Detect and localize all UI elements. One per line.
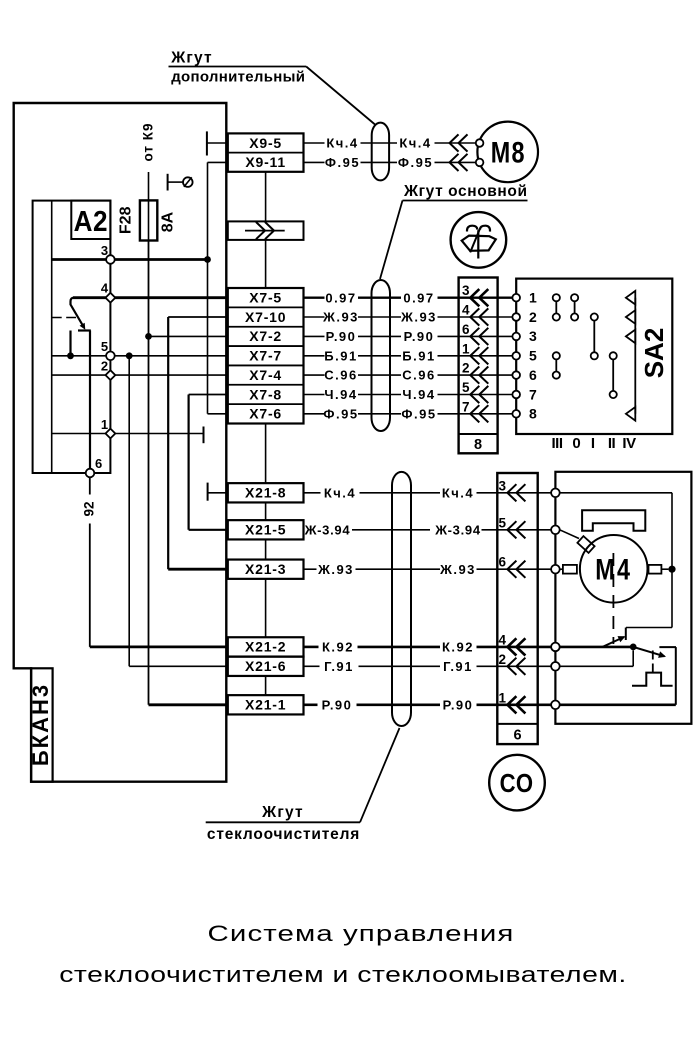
svg-text:8: 8: [529, 406, 537, 422]
svg-text:6: 6: [462, 322, 470, 337]
connector pins chevrons M8 row1: [450, 134, 459, 151]
svg-text:7: 7: [462, 399, 470, 414]
M4 terminal circle row 1: [551, 701, 560, 710]
M4 terminal circle row 5: [551, 526, 560, 535]
SA2 contact column C bridge 2-5: [591, 313, 598, 320]
M4 net terminal3 wire: [560, 492, 672, 494]
motor shaft dashed axis: [612, 553, 614, 644]
wire X9-5 terminal: [206, 131, 208, 155]
M8 terminal top: [476, 139, 484, 147]
svg-text:X9-11: X9-11: [245, 154, 286, 170]
svg-text:Р.90: Р.90: [443, 697, 474, 712]
svg-text:3: 3: [101, 243, 108, 258]
A2 pin 2: [106, 370, 116, 380]
connector strip 6-pin box: [497, 473, 537, 744]
junction dot row5-riser: [126, 352, 133, 359]
connector X21-2 box: [228, 637, 304, 656]
svg-text:Ж-3.94: Ж-3.94: [304, 522, 351, 537]
svg-text:С.96: С.96: [324, 368, 357, 383]
park switch pivot dot: [630, 644, 637, 651]
wiper system icon circle: [451, 212, 507, 268]
M8 terminal bottom: [476, 159, 484, 167]
svg-text:Жгут основной: Жгут основной: [403, 183, 528, 200]
wire К.92 X21 row: [304, 646, 319, 649]
svg-text:СО: СО: [500, 769, 534, 798]
connector X9 table: [228, 133, 304, 171]
wire Ж.93 X21 row: [304, 568, 317, 570]
switch SA2 box: [516, 279, 672, 434]
park switch blade 1: [603, 637, 625, 647]
contact to pin 6: [78, 329, 91, 331]
svg-text:Г.91: Г.91: [324, 659, 354, 674]
strip6 chevron row 2: [507, 521, 516, 538]
M4 terminal circle row 2: [551, 662, 560, 671]
A2 pin 1: [106, 429, 116, 439]
wire Ф.95 X7 row 7: [304, 413, 325, 415]
strip chevron row 4: [470, 347, 479, 364]
svg-text:0.97: 0.97: [325, 290, 356, 305]
wire С.96 X7 row 5: [304, 374, 325, 376]
junction dot switch-row5: [67, 352, 74, 359]
svg-text:Кч.4: Кч.4: [442, 485, 474, 500]
wire X7-2 row: [149, 335, 228, 337]
svg-text:Кч.4: Кч.4: [326, 136, 358, 151]
strip6 chevron row 1: [507, 484, 516, 501]
wire from K9 to fuse: [148, 172, 150, 200]
relay contact blade from pin 4: [71, 298, 85, 328]
A2 label text: [74, 205, 108, 238]
svg-text:X21-3: X21-3: [245, 561, 286, 577]
cable line X7 to X21-8: [265, 424, 267, 484]
svg-text:X21-1: X21-1: [245, 697, 286, 713]
svg-text:1: 1: [462, 341, 470, 356]
svg-text:М8: М8: [491, 136, 526, 169]
svg-text:0: 0: [572, 435, 580, 452]
svg-text:Ж.93: Ж.93: [439, 562, 476, 577]
svg-text:стеклоочистителя: стеклоочистителя: [207, 826, 360, 843]
screw terminal Ø: [167, 174, 169, 191]
strip chevron row 6: [470, 386, 479, 403]
svg-text:Ф.95: Ф.95: [401, 406, 436, 421]
washer pump symbol СО: [489, 755, 545, 811]
connector X21-8 box: [228, 483, 304, 502]
A2 label box: [71, 201, 110, 239]
wire A2 pin 1 row: [52, 433, 204, 435]
svg-text:IV: IV: [622, 435, 636, 452]
svg-text:А2: А2: [74, 205, 108, 238]
svg-text:5: 5: [498, 515, 506, 530]
strip6 chevron row 3: [507, 561, 516, 578]
svg-text:6: 6: [498, 555, 506, 570]
SA2 contact column A bridge 5-6: [553, 352, 560, 359]
svg-text:6: 6: [513, 728, 521, 744]
connector X7 table: [228, 288, 304, 424]
svg-text:Ф.95: Ф.95: [398, 155, 433, 170]
wire X21-1 row (bold): [149, 703, 228, 706]
svg-text:Жгут: Жгут: [261, 804, 304, 821]
A2 pin 5: [106, 352, 115, 361]
svg-text:Кч.4: Кч.4: [399, 136, 431, 151]
svg-text:SA2: SA2: [639, 328, 669, 379]
svg-text:8: 8: [474, 437, 482, 453]
cable line X21-3 to X21-2: [265, 579, 267, 637]
svg-text:X21-2: X21-2: [245, 639, 286, 655]
strip6 chevron row 5: [507, 658, 516, 675]
cam profile: [632, 673, 673, 686]
SA2 contact column A bridge 1-2: [553, 294, 560, 301]
fuse wire through: [148, 200, 150, 240]
harness oval additional: [372, 123, 389, 181]
net fuse to X7-2/X21-1 vertical: [148, 241, 150, 705]
svg-text:X7-6: X7-6: [249, 406, 282, 422]
svg-text:Ж-3.94: Ж-3.94: [434, 522, 481, 537]
svg-text:4: 4: [101, 281, 109, 296]
svg-text:6: 6: [529, 367, 537, 383]
cable line X21-8 to X21-5: [265, 502, 267, 520]
M4 right brush wire: [661, 568, 668, 570]
wire Р.90 X21 row: [304, 703, 318, 706]
svg-text:0.97: 0.97: [403, 290, 434, 305]
svg-text:I: I: [591, 435, 595, 452]
M4 terminal4 wire (bold): [560, 646, 634, 649]
SA2 terminal circle pin 8: [512, 410, 520, 418]
svg-text:Жгут: Жгут: [170, 50, 213, 67]
svg-text:К.92: К.92: [442, 640, 474, 655]
M4 left brush: [563, 565, 577, 574]
svg-text:Б.91: Б.91: [324, 348, 357, 363]
svg-text:дополнительный: дополнительный: [171, 69, 305, 86]
svg-text:Ж.93: Ж.93: [317, 562, 354, 577]
M4 terminal2 wire: [560, 665, 634, 667]
svg-text:X21-6: X21-6: [245, 658, 286, 674]
A2 pin 4: [106, 293, 116, 303]
svg-text:Ф.95: Ф.95: [325, 155, 360, 170]
svg-text:4: 4: [498, 632, 506, 647]
svg-text:X7-5: X7-5: [249, 290, 282, 306]
wiper icon glyph: [462, 236, 496, 251]
svg-text:X21-8: X21-8: [245, 485, 286, 501]
svg-text:Р.90: Р.90: [404, 329, 435, 344]
net row5 to X21-6: [128, 356, 130, 667]
svg-text:2: 2: [529, 309, 537, 325]
strip6 chevron row 4: [507, 638, 516, 655]
SA2 selector line: [634, 298, 636, 414]
svg-text:III: III: [551, 435, 562, 452]
splice symbol box: [228, 221, 304, 240]
M4 terminal circle row 6: [551, 565, 560, 574]
M4 right brush: [649, 565, 662, 574]
A2 internal bus line: [51, 201, 53, 473]
svg-text:5: 5: [529, 348, 537, 364]
svg-text:II: II: [608, 435, 616, 452]
svg-text:3: 3: [498, 478, 506, 493]
svg-text:БКАН3: БКАН3: [28, 683, 53, 766]
M4 terminal5 wire to third brush: [560, 530, 579, 539]
svg-text:Г.91: Г.91: [443, 659, 473, 674]
svg-text:X7-4: X7-4: [249, 367, 282, 383]
motor M8 label: [491, 136, 526, 169]
svg-text:X21-5: X21-5: [245, 522, 286, 538]
net X7-10 to X21-3: [167, 317, 169, 569]
svg-text:4: 4: [462, 303, 470, 318]
svg-text:X7-8: X7-8: [249, 386, 282, 402]
svg-text:F28: F28: [118, 206, 135, 234]
svg-text:Р.90: Р.90: [322, 697, 353, 712]
svg-text:2: 2: [498, 652, 506, 667]
SA2 terminal circle pin 5: [512, 352, 520, 360]
svg-text:Ч.94: Ч.94: [324, 387, 357, 402]
svg-text:Ж.93: Ж.93: [322, 310, 359, 325]
caption line 1: [208, 921, 515, 946]
svg-text:92: 92: [81, 501, 96, 516]
wire A2 pin 2 row: [52, 374, 228, 376]
svg-text:1: 1: [101, 417, 108, 432]
wire Ж-3.94 X21 row: [302, 529, 305, 531]
junction dot motor brush net: [668, 566, 675, 573]
cable line arrow box to X7: [265, 240, 267, 288]
mechanical link dashed: [52, 317, 76, 319]
svg-text:5: 5: [462, 380, 470, 395]
SA2 terminal circle pin 6: [512, 371, 520, 379]
strip6 chevron row 6: [507, 696, 516, 713]
svg-text:от К9: от К9: [140, 122, 155, 161]
wire 0.97 X7 row 1: [304, 297, 325, 299]
net X9-11 to X7-6 vertical: [208, 161, 228, 163]
svg-text:5: 5: [101, 339, 108, 354]
unit БКАН3 outline box: [14, 103, 227, 782]
wire Ж.93 X7 row 2: [304, 316, 325, 318]
svg-text:2: 2: [462, 361, 470, 376]
A2 pin 6: [86, 469, 95, 478]
svg-text:1: 1: [529, 290, 537, 306]
wire Р.90 X7 row 3: [304, 335, 325, 337]
junction dot pin3/X9-11 net: [204, 256, 211, 263]
motor M4 circle: [580, 535, 648, 603]
svg-text:Ч.94: Ч.94: [402, 387, 435, 402]
svg-text:Ф.95: Ф.95: [323, 406, 358, 421]
SA2 contact column D bridge 5-7: [610, 352, 617, 359]
strip chevron row 5: [470, 367, 479, 384]
M4 terminal circle row 4: [551, 643, 560, 652]
wire Кч.4 X9-5 to M8: [304, 142, 325, 144]
SA2 selector triangles: [626, 291, 635, 305]
svg-text:6: 6: [95, 456, 102, 471]
connector X21-3 box: [228, 560, 304, 579]
SA2 terminal circle pin 2: [512, 313, 520, 321]
park switch blade 2: [633, 647, 664, 656]
svg-text:Кч.4: Кч.4: [324, 485, 356, 500]
wire A2 pin 4 row to X7-5 (bold): [73, 296, 228, 299]
svg-text:3: 3: [529, 328, 537, 344]
connector pins chevrons M8 row2: [450, 154, 459, 171]
svg-text:X7-7: X7-7: [249, 348, 282, 364]
M4 terminal1 wire (bold): [560, 703, 676, 706]
svg-text:Ж.93: Ж.93: [400, 310, 437, 325]
wire Б.91 X7 row 4: [304, 355, 325, 357]
M4 terminal6 wire: [560, 568, 563, 570]
fuse F28 body: [140, 200, 157, 240]
strip chevron row 2: [470, 308, 479, 325]
svg-text:1: 1: [498, 690, 506, 705]
terminal bar pin1 wire end: [203, 427, 205, 444]
connector X21-6 box: [228, 657, 304, 676]
wire Г.91 X21 row: [304, 665, 320, 667]
wire A2 pin 3 row (bold): [52, 258, 208, 261]
SA2 terminal circle pin 3: [512, 333, 520, 341]
connector strip 8-pin box: [459, 278, 498, 454]
cable line X9 to arrow box: [265, 172, 267, 222]
strip chevron row 3: [470, 328, 479, 345]
A2 pin 3: [106, 255, 115, 264]
cam dashed link: [652, 651, 654, 673]
svg-text:8А: 8А: [160, 211, 177, 232]
contact to pin 5: [69, 331, 71, 356]
module A2 box: [33, 201, 111, 473]
wire Ф.95 X9-11 to M8: [304, 161, 325, 163]
svg-text:С.96: С.96: [402, 368, 435, 383]
motor M8 circle: [477, 122, 538, 183]
caption line 2: [59, 963, 627, 987]
splice arrow: [245, 230, 285, 232]
harness oval main: [372, 280, 391, 431]
SA2 terminal circle pin 1: [512, 294, 520, 302]
svg-text:X9-5: X9-5: [249, 135, 282, 151]
SA2 contact column B bridge 1-2: [571, 294, 578, 301]
svg-text:Б.91: Б.91: [402, 348, 435, 363]
strip chevron row 7: [470, 405, 479, 422]
svg-text:3: 3: [462, 283, 470, 298]
net X7-8 to X21-5: [188, 395, 190, 530]
SA2 terminal circle pin 7: [512, 391, 520, 399]
park switch contact 2: [659, 646, 676, 648]
strip chevron row 1: [470, 289, 479, 306]
БКАН3 name compartment: [31, 668, 52, 781]
svg-text:стеклоочистителем и стеклоомыв: стеклоочистителем и стеклоомывателем.: [59, 963, 627, 987]
svg-text:X7-10: X7-10: [245, 309, 286, 325]
wire Кч.4 X21 row: [304, 492, 321, 494]
wire Ч.94 X7 row 6: [304, 394, 325, 396]
wire 92 from pin 6: [89, 477, 91, 494]
motor M4 label: [595, 553, 632, 586]
park switch contact 1: [625, 628, 627, 641]
svg-text:Р.90: Р.90: [326, 329, 357, 344]
svg-text:К.92: К.92: [322, 640, 354, 655]
connector X21-1 box: [228, 695, 304, 714]
wiper crank bracket: [582, 510, 645, 530]
wire X21-8 terminal: [207, 483, 209, 501]
wiper motor unit box: [555, 472, 691, 724]
svg-text:X7-2: X7-2: [249, 328, 282, 344]
connector X21-5 box: [228, 520, 304, 539]
svg-text:Система управления: Система управления: [208, 921, 515, 946]
svg-text:7: 7: [529, 386, 537, 402]
svg-text:2: 2: [101, 359, 108, 374]
cable line X21-5 to X21-3: [265, 539, 267, 559]
cable line X21-6 to X21-1: [265, 676, 267, 695]
M4 terminal circle row 3: [551, 489, 560, 498]
junction dot fuse/X7-2: [145, 333, 152, 340]
wire A2 pin 5 row: [52, 355, 228, 357]
harness oval wiper: [392, 472, 411, 726]
third brush (tilted): [577, 536, 594, 553]
